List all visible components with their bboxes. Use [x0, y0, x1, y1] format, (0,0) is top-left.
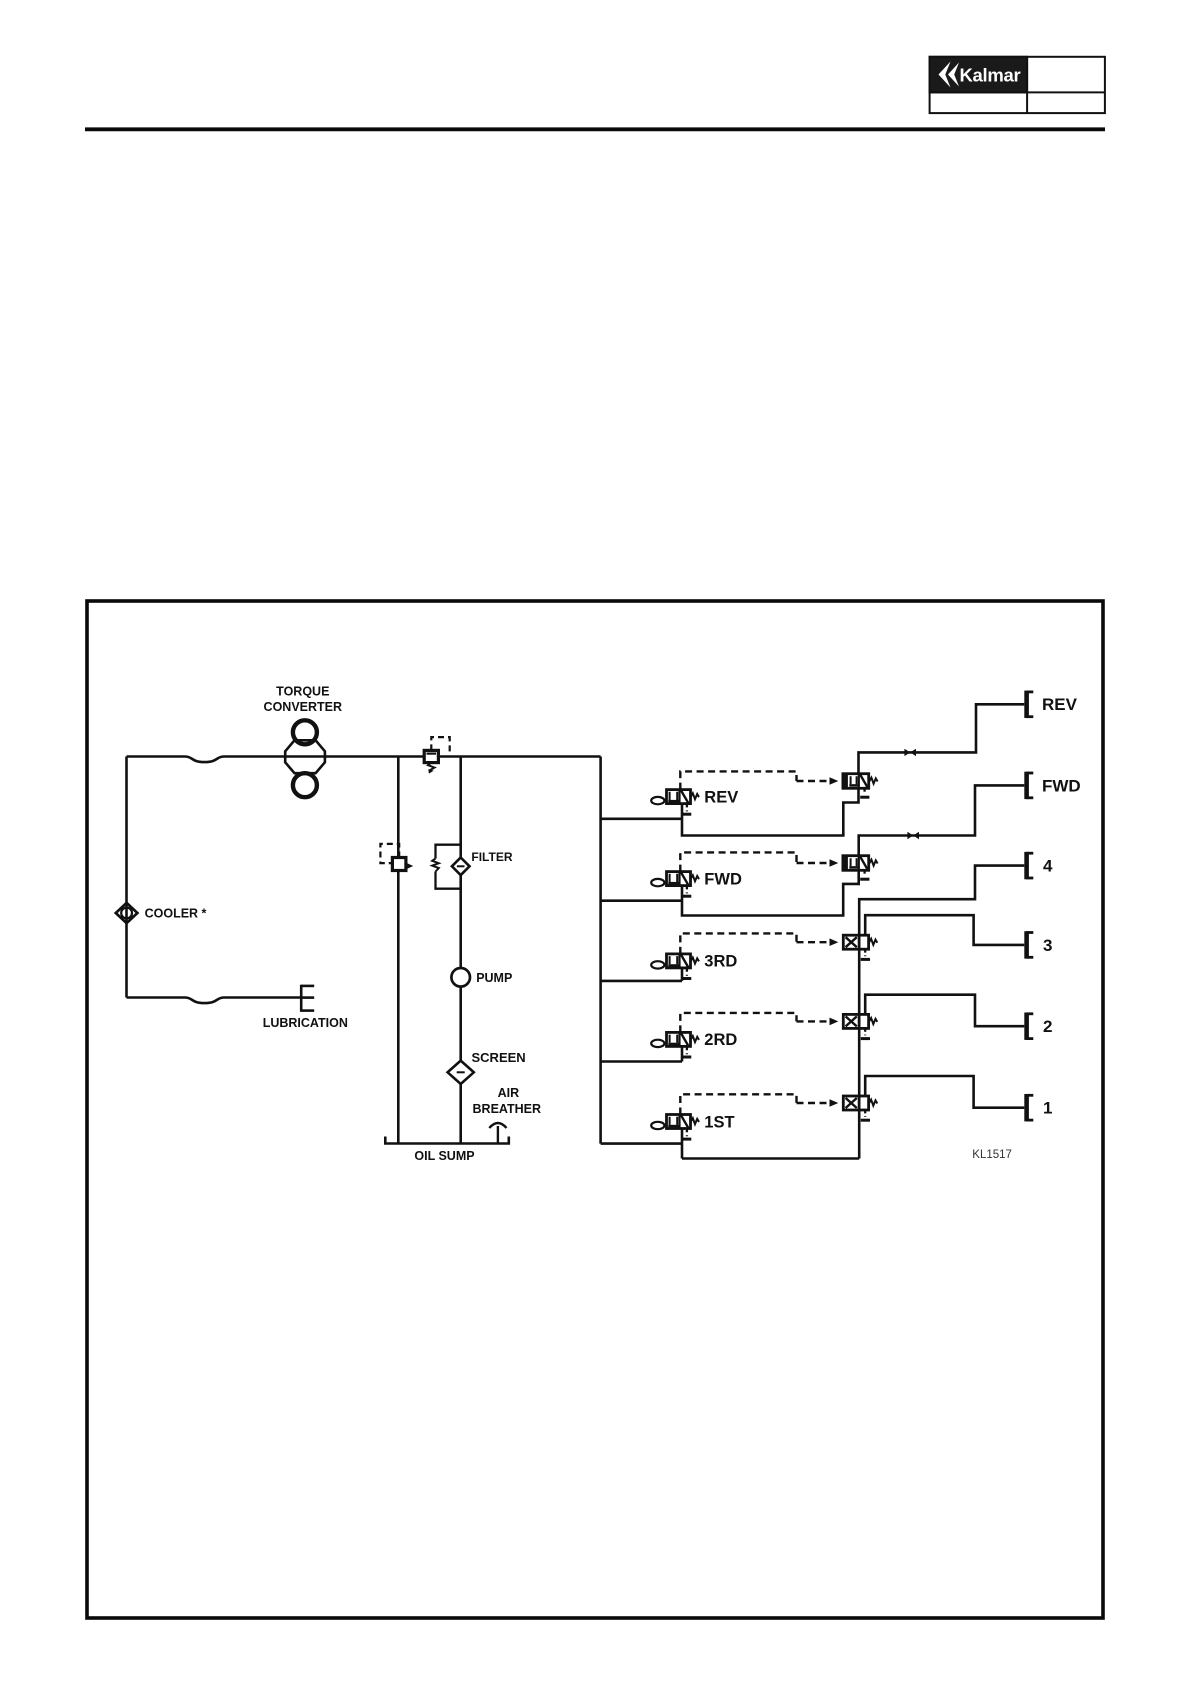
svg-text:3RD: 3RD — [704, 953, 737, 971]
svg-text:SCREEN: SCREEN — [472, 1050, 526, 1065]
svg-text:KL1517: KL1517 — [972, 1149, 1012, 1161]
svg-text:PUMP: PUMP — [476, 971, 512, 985]
svg-text:FWD: FWD — [1042, 776, 1081, 795]
svg-text:REV: REV — [704, 788, 738, 806]
svg-text:LUBRICATION: LUBRICATION — [263, 1016, 348, 1030]
svg-text:OIL SUMP: OIL SUMP — [414, 1149, 474, 1163]
svg-text:CONVERTER: CONVERTER — [264, 700, 342, 714]
svg-text:3: 3 — [1043, 936, 1052, 955]
svg-text:REV: REV — [1042, 695, 1078, 714]
svg-text:FILTER: FILTER — [471, 850, 512, 864]
svg-text:FWD: FWD — [704, 870, 742, 888]
svg-text:TORQUE: TORQUE — [276, 685, 329, 699]
svg-text:4: 4 — [1043, 857, 1053, 876]
svg-text:Kalmar: Kalmar — [960, 64, 1021, 85]
svg-text:1: 1 — [1043, 1099, 1052, 1118]
svg-text:2: 2 — [1043, 1017, 1052, 1036]
svg-text:1ST: 1ST — [704, 1113, 734, 1131]
svg-text:AIR: AIR — [498, 1086, 520, 1100]
svg-text:COOLER *: COOLER * — [145, 907, 207, 921]
svg-text:BREATHER: BREATHER — [473, 1102, 542, 1116]
svg-text:2RD: 2RD — [704, 1031, 737, 1049]
